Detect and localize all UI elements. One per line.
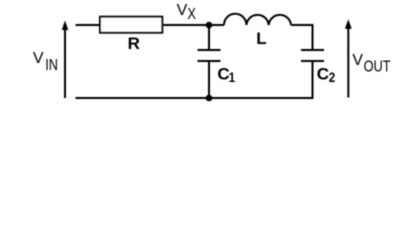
V_IN arrow [62, 21, 69, 99]
wire: C2 to bottom rail [312, 61, 314, 98]
svg-text:V: V [177, 2, 188, 19]
wire: node Vx down to C1 [208, 25, 210, 50]
svg-text:OUT: OUT [364, 58, 391, 76]
capacitor C1 [198, 50, 221, 61]
V_OUT arrow [345, 19, 352, 97]
inductor L [224, 14, 291, 25]
wire: inductor to C2 top corner [291, 25, 313, 50]
wire: top lead into resistor [76, 24, 100, 26]
svg-text:1: 1 [229, 69, 236, 85]
svg-text:R: R [128, 34, 140, 53]
svg-text:X: X [187, 6, 196, 24]
junction dot: C1 bottom node [206, 95, 213, 102]
wire: resistor to inductor through node Vx [163, 24, 224, 26]
svg-text:IN: IN [45, 57, 58, 75]
svg-text:L: L [256, 29, 266, 48]
capacitor C2 [301, 50, 324, 61]
wire: C1 to bottom rail [208, 61, 210, 98]
svg-text:C: C [317, 64, 329, 83]
wire: bottom rail [76, 97, 314, 99]
resistor R [100, 17, 162, 33]
svg-text:2: 2 [329, 69, 336, 85]
node Vx junction dot [206, 22, 213, 29]
svg-text:V: V [33, 50, 44, 67]
svg-text:V: V [352, 52, 363, 69]
